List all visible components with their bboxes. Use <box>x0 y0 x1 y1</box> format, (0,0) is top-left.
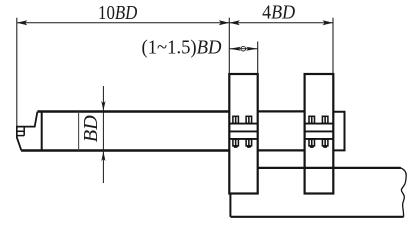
arrowhead BD top <box>101 101 105 111</box>
bar pilot end beyond block 2 <box>333 112 344 151</box>
block 2 band line middle <box>305 130 334 132</box>
svg-text:(1~1.5)BD: (1~1.5)BD <box>142 36 222 58</box>
dimension line 10BD <box>17 22 230 24</box>
bar segment between blocks bottom edge <box>258 149 305 151</box>
svg-text:10BD: 10BD <box>98 2 138 24</box>
cutter head lower chamfer <box>17 137 22 150</box>
screw set: block2 left bottom <box>309 139 315 148</box>
extension line middle (block1 left) <box>228 18 230 74</box>
block 1 band line bottom <box>229 138 257 140</box>
boring bar top edge <box>37 110 229 112</box>
circle marker on (1~1.5)BD dimension <box>241 46 246 51</box>
svg-text:4BD: 4BD <box>262 2 295 24</box>
block 1 band line middle <box>229 130 257 132</box>
cutter insert line 1 <box>17 130 24 132</box>
dimension line 4BD <box>229 22 333 24</box>
bar joint line mid <box>78 112 80 151</box>
screw set: block2 left top <box>309 116 315 123</box>
block 1 band line top <box>229 123 257 125</box>
dimension line (1~1.5)BD <box>229 48 257 50</box>
extension line block1 right <box>257 42 259 74</box>
cutter head left edge <box>16 126 18 138</box>
dimension line BD (vertical) <box>102 86 104 183</box>
cutter insert line 2 <box>17 135 24 137</box>
workpiece table top edge <box>257 167 401 169</box>
screw set: block2 right bottom <box>322 139 328 148</box>
guide block 1 <box>229 74 257 194</box>
svg-text:BD: BD <box>80 115 102 142</box>
cutter head top edge <box>17 112 38 127</box>
screw set: block1 left top <box>233 116 239 123</box>
bar segment between blocks top edge <box>258 110 305 112</box>
cutter insert right edge <box>23 127 25 136</box>
guide block 2 <box>305 74 334 194</box>
arrowhead 4BD left <box>229 20 240 25</box>
extension line right (block2 right) <box>332 18 334 74</box>
screw set: block2 right top <box>322 116 328 123</box>
arrowhead BD bottom <box>101 152 105 162</box>
workpiece break line (wavy) <box>401 168 407 217</box>
workpiece table bottom edge <box>230 216 403 218</box>
arrowhead 10BD left <box>17 20 28 25</box>
block 2 band line bottom <box>305 138 334 140</box>
arrowhead 4BD right <box>323 20 334 25</box>
block 2 band line top <box>305 123 334 125</box>
screw set: block1 left bottom <box>233 139 239 148</box>
screw set: block1 right bottom <box>246 139 252 148</box>
arrowhead 10BD right <box>219 20 230 25</box>
extension line left (tool tip) <box>16 18 18 127</box>
arrowhead (1~1.5)BD right <box>246 47 258 51</box>
bar joint line at head <box>41 112 43 151</box>
workpiece table left edge <box>229 194 231 217</box>
arrowhead (1~1.5)BD left <box>229 47 241 51</box>
boring bar bottom edge <box>21 149 229 152</box>
screw set: block1 right top <box>246 116 252 123</box>
